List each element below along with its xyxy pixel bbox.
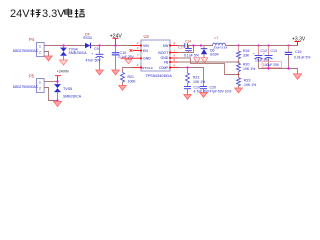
wire P5 pin1 <box>44 81 57 83</box>
no-connect X on EN <box>130 49 133 52</box>
svg-text:R21: R21 <box>128 75 134 79</box>
node C13 <box>267 44 269 46</box>
pin 2 VIN <box>131 41 142 46</box>
wire P5 pin2 <box>44 88 57 101</box>
svg-text:GND: GND <box>143 56 151 60</box>
resistor R16 <box>237 46 241 63</box>
wire L7 to +3.3V <box>226 42 298 46</box>
capacitor C19 <box>184 83 191 95</box>
svg-text:SS34: SS34 <box>83 36 92 40</box>
svg-text:DB0275/5000AC: DB0275/5000AC <box>13 49 39 53</box>
capacitor C17 <box>178 45 192 52</box>
svg-text:C14: C14 <box>185 40 191 44</box>
svg-text:33K: 33K <box>243 53 250 57</box>
svg-text:L7: L7 <box>215 36 219 40</box>
svg-text:R16: R16 <box>243 49 249 53</box>
svg-text:DB0275/5000AC: DB0275/5000AC <box>13 85 39 89</box>
capacitor C20 <box>200 87 207 93</box>
node R16 top <box>237 44 239 46</box>
TVS TVS5 <box>54 82 60 101</box>
node P5 ground <box>56 99 58 101</box>
svg-text:47uF 50V: 47uF 50V <box>86 58 102 62</box>
svg-text:100K: 100K <box>128 79 137 83</box>
svg-text:BOOT: BOOT <box>158 51 169 55</box>
connector P5 <box>29 73 44 92</box>
wire P4 pin1 to D4 <box>44 45 85 47</box>
pin 7 GND <box>121 54 143 60</box>
svg-text:TVS5: TVS5 <box>63 87 72 91</box>
node C9 <box>98 44 100 46</box>
pin 4 RT/CLK <box>133 63 142 68</box>
connector P4 <box>29 37 44 57</box>
node TVS4 junction <box>62 44 64 46</box>
capacitor C13 <box>263 46 277 69</box>
svg-text:2: 2 <box>39 86 41 90</box>
wire C14 to L7 <box>188 45 213 47</box>
ground P5 <box>54 101 62 106</box>
svg-text:10K 1%: 10K 1% <box>244 83 256 87</box>
node C10 <box>114 44 116 46</box>
wire SW to C14 <box>178 45 184 47</box>
ground pad 2 <box>201 58 208 64</box>
svg-text:R20: R20 <box>243 62 249 66</box>
svg-text:1: 1 <box>39 80 41 84</box>
pin 5 FB <box>169 58 178 63</box>
inductor L7 <box>213 36 226 46</box>
wire D4 to VIN <box>91 45 132 47</box>
svg-text:100uF 25V: 100uF 25V <box>263 63 280 67</box>
power +24V <box>110 33 123 45</box>
ground rail <box>293 74 301 80</box>
ground GND-left <box>128 58 130 59</box>
svg-text:SMBJ30CA: SMBJ30CA <box>63 94 82 98</box>
svg-text:P4: P4 <box>29 37 35 42</box>
capacitor C12 <box>253 46 267 69</box>
svg-text:C16: C16 <box>295 50 301 54</box>
ground C19 <box>184 95 192 100</box>
svg-text:R23: R23 <box>244 78 250 82</box>
resistor R20 <box>237 62 241 75</box>
svg-text:R22: R22 <box>193 75 199 79</box>
svg-text:1: 1 <box>39 44 41 48</box>
svg-text:SW: SW <box>163 44 169 48</box>
wire BOOT loop <box>178 46 194 53</box>
ground R23 <box>235 88 243 93</box>
node rail C13 <box>267 67 269 69</box>
node diode D6 top <box>200 44 202 46</box>
svg-text:2: 2 <box>39 50 41 54</box>
op-amp U2 TPS54340 box <box>141 34 170 71</box>
svg-text:VIN: VIN <box>143 44 149 48</box>
node gnd join <box>238 74 240 76</box>
ground R21 <box>119 86 127 91</box>
svg-text:SS34: SS34 <box>210 52 219 56</box>
svg-text:47pF 50V 10%: 47pF 50V 10% <box>210 90 232 94</box>
pin 1 BOOT <box>169 48 178 53</box>
wire GND-right net <box>178 58 239 75</box>
svg-text:+24VIN: +24VIN <box>57 69 69 73</box>
pin 9 GND2 <box>169 54 178 60</box>
svg-text:EN: EN <box>143 49 148 53</box>
svg-text:24V: 24V <box>10 8 30 20</box>
svg-text:P5: P5 <box>29 73 35 78</box>
svg-text:COMP: COMP <box>159 66 169 70</box>
svg-text:0.01uF 5%: 0.01uF 5% <box>294 55 310 59</box>
diode D6 <box>201 46 208 58</box>
ground P4 pin2 <box>45 56 53 61</box>
wire RT/CLK to R21 <box>123 68 134 73</box>
title 24V转3.3V电路 <box>10 8 84 20</box>
capacitor C10 <box>112 46 119 71</box>
wire FB to divider <box>178 61 239 63</box>
svg-text:33uH 3.3A: 33uH 3.3A <box>214 46 228 50</box>
svg-text:10K 1%: 10K 1% <box>243 67 255 71</box>
node rail C16 <box>287 67 289 69</box>
wire output ground rail <box>259 69 298 74</box>
svg-text:0.1uF 5%: 0.1uF 5% <box>184 54 199 58</box>
node FB <box>238 61 240 63</box>
capacitor C14 (series bars) <box>185 40 191 48</box>
svg-text:TPS54340DDA: TPS54340DDA <box>145 73 172 78</box>
svg-text:3.3V: 3.3V <box>42 8 65 20</box>
resistor R21 <box>121 73 125 83</box>
capacitor C9 <box>91 46 104 71</box>
ground C10 <box>112 70 120 75</box>
svg-text:U2: U2 <box>144 34 150 39</box>
power +3.3V <box>292 36 306 45</box>
svg-text:RT/CLK: RT/CLK <box>142 66 153 70</box>
node boot <box>192 44 194 46</box>
ground C9 <box>96 70 104 75</box>
node TVS5 top <box>56 80 58 82</box>
wire COMP <box>178 68 204 87</box>
TVS TVS4 <box>60 46 66 61</box>
svg-text:SMBJ30CA: SMBJ30CA <box>69 51 88 55</box>
svg-text:C13: C13 <box>271 49 277 53</box>
svg-text:C17: C17 <box>178 45 184 49</box>
C13 value box <box>262 62 282 68</box>
resistor R23 <box>237 75 241 89</box>
node COMP branch <box>186 66 188 68</box>
wire P4 pin2 to ground <box>44 52 48 57</box>
pin 6 COMP <box>169 63 178 68</box>
resistor R22 <box>186 68 190 84</box>
ground C20 <box>200 93 208 98</box>
pin 3 EN <box>133 46 142 51</box>
node C12 <box>257 44 259 46</box>
ground TVS4 <box>60 60 68 65</box>
wire R21 to ground <box>122 82 124 86</box>
capacitor C16 <box>285 46 292 69</box>
node C16 <box>287 44 289 46</box>
power +24V at P5 <box>55 69 69 81</box>
svg-text:C9: C9 <box>94 47 99 51</box>
svg-text:FB: FB <box>164 60 169 64</box>
diode D4 <box>83 33 92 49</box>
pin 8 SW <box>169 41 178 46</box>
svg-text:10K 1%: 10K 1% <box>193 80 205 84</box>
ground pad 1 <box>194 58 201 64</box>
